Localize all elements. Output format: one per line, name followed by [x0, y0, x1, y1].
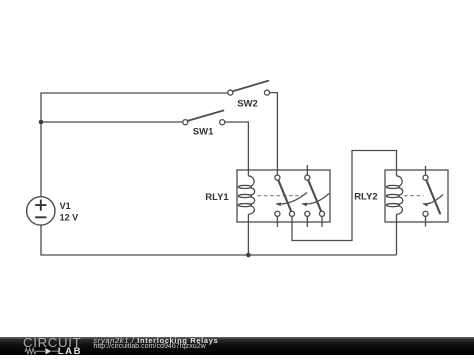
svg-text:12 V: 12 V	[60, 212, 79, 222]
svg-text:SW1: SW1	[193, 127, 214, 138]
svg-text:V1: V1	[60, 201, 71, 211]
svg-text:RLY2: RLY2	[354, 192, 377, 203]
svg-text:SW2: SW2	[237, 98, 258, 109]
svg-text:RLY1: RLY1	[205, 192, 229, 203]
